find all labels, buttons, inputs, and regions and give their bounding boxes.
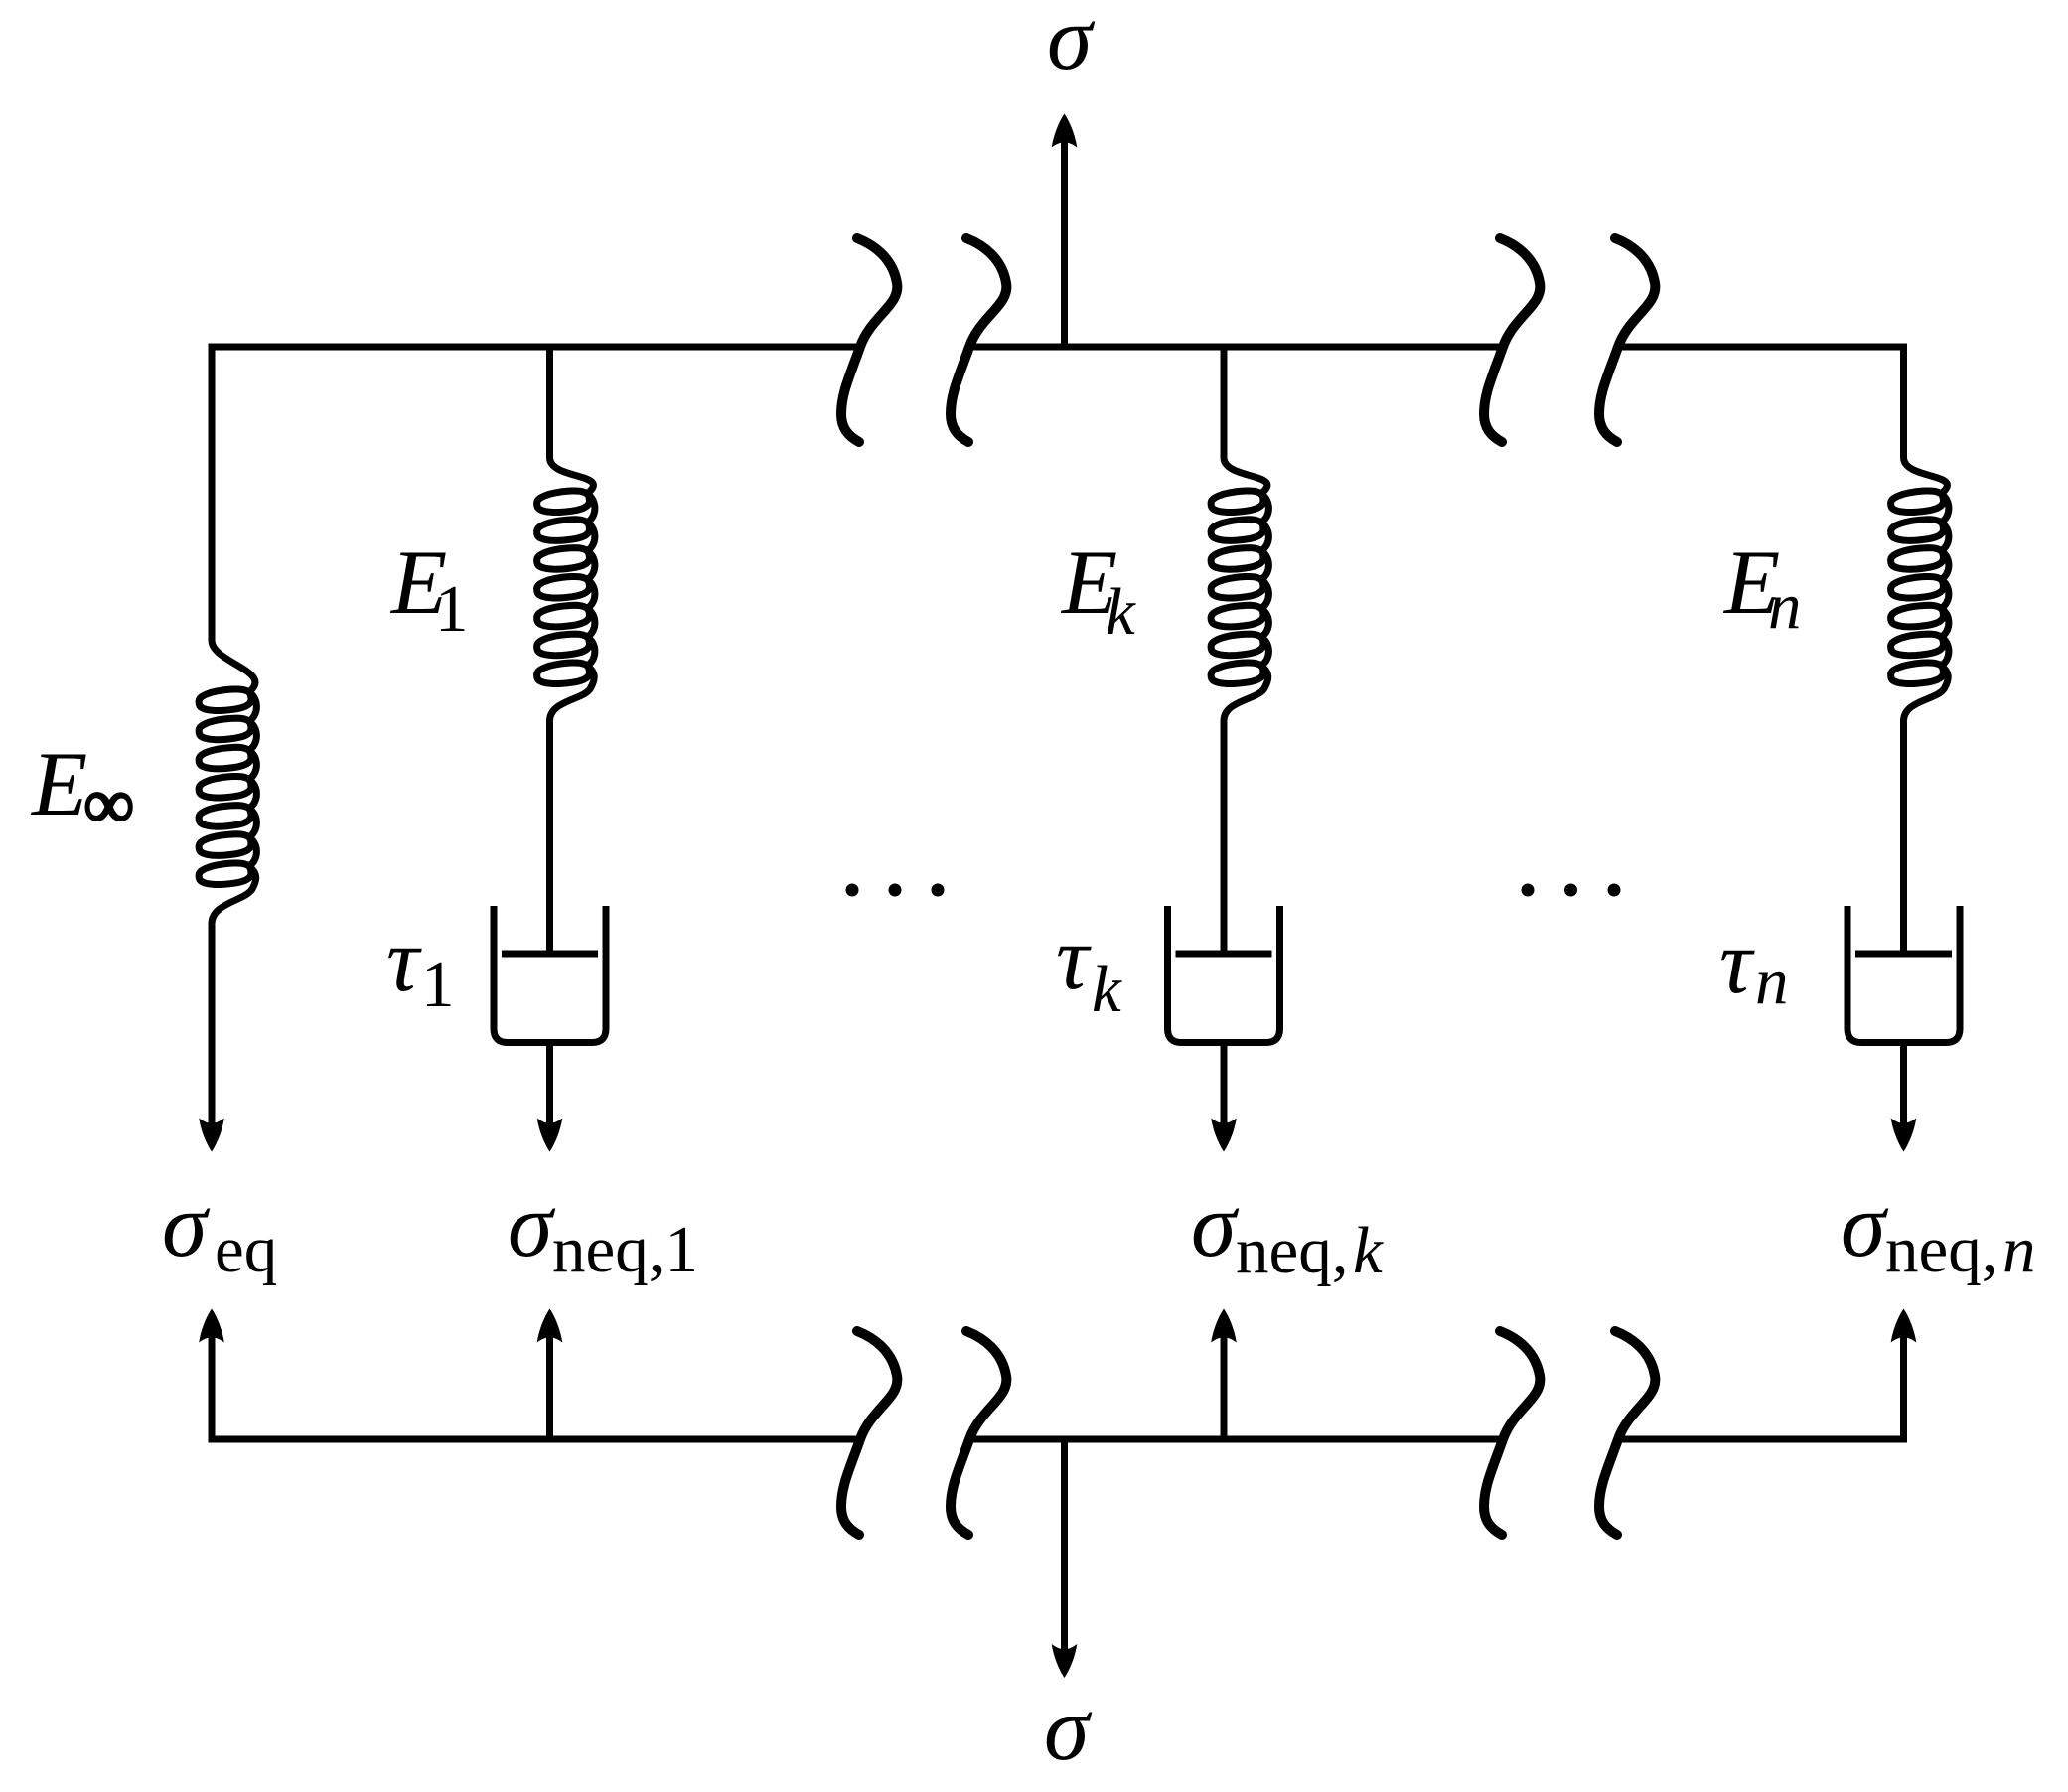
svg-text:k: k (1092, 953, 1122, 1026)
svg-text:τ: τ (1719, 911, 1755, 1012)
svg-text:τ: τ (1056, 907, 1092, 1008)
svg-text:k: k (1106, 575, 1136, 649)
svg-text:eq: eq (215, 1213, 277, 1286)
svg-text:1: 1 (435, 572, 469, 646)
svg-text:σ: σ (1047, 0, 1096, 88)
svg-text:n: n (2002, 1213, 2036, 1286)
svg-text:σ: σ (1841, 1174, 1889, 1275)
svg-text:E: E (30, 733, 87, 834)
svg-text:σ: σ (1191, 1174, 1240, 1275)
svg-text:n: n (1755, 945, 1789, 1018)
svg-text:1: 1 (421, 948, 455, 1021)
svg-text:τ: τ (386, 909, 422, 1010)
svg-text:n: n (1768, 569, 1802, 643)
svg-text:∞: ∞ (83, 764, 134, 843)
svg-text:neq,: neq, (1236, 1214, 1349, 1287)
svg-text:neq,1: neq,1 (552, 1213, 698, 1286)
svg-text:σ: σ (1044, 1678, 1093, 1779)
svg-text:σ: σ (162, 1174, 211, 1275)
svg-text:neq,: neq, (1885, 1213, 1998, 1286)
svg-text:k: k (1353, 1214, 1384, 1287)
svg-text:σ: σ (508, 1174, 556, 1275)
